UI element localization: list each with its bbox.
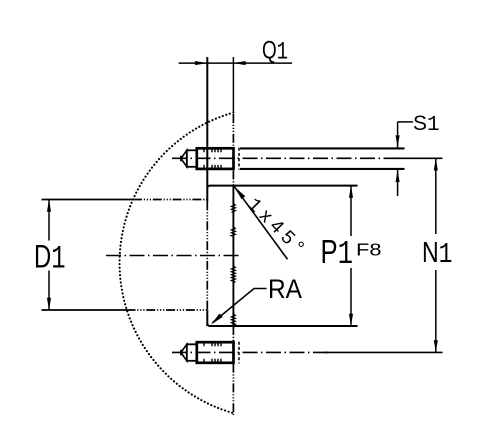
recess bore thread zigzags [232, 204, 236, 326]
flange left face line below recess corner (solid to bore) [206, 186, 208, 202]
svg-text:P1: P1 [321, 233, 354, 273]
bottom stud tip cone [181, 344, 187, 361]
bore hidden line bottom (D1 lower, hidden part) [127, 309, 208, 311]
top stud centre line [172, 157, 396, 159]
recess bore line (solid, right face 186-326) [232, 186, 234, 326]
chamfer leader arrowhead [234, 186, 245, 199]
flange right face hidden line upper [232, 114, 234, 147]
bottom stud neck rectangle [187, 344, 197, 361]
dimension N1 upper arrowhead [434, 158, 438, 170]
dimension N1 line lower segment [435, 270, 437, 352]
svg-text:F8: F8 [356, 240, 382, 260]
bore line bottom (D1 lower extension, solid) [42, 309, 127, 311]
dimension S1 leader horizontal [398, 121, 413, 123]
flange right face hidden line lower [232, 364, 234, 415]
dimension S1 upper arrowhead [396, 135, 400, 147]
svg-text:Q1: Q1 [262, 37, 288, 67]
dimension S1 upper line [397, 122, 399, 148]
top stud threaded body rectangle [197, 148, 234, 169]
svg-text:RA: RA [268, 274, 302, 304]
dimension D1 lower arrowhead [47, 298, 51, 310]
dimension N1 lower arrowhead [434, 340, 438, 352]
svg-text:N1: N1 [422, 237, 453, 271]
dimension P1 lower arrowhead [349, 314, 353, 326]
flange left face hidden line (across bore) [206, 202, 208, 311]
dimension D1 line upper segment [48, 200, 50, 241]
flange right face extension line (Q1) [232, 57, 234, 113]
leader RA polyline [213, 289, 267, 323]
top stud tip cone [181, 150, 187, 167]
top stud shaft bottom line [240, 168, 405, 170]
dimension Q1 left arrowhead [195, 61, 207, 65]
bottom stud thread runout hidden line [238, 342, 240, 364]
flange right face hidden line below recess [232, 326, 234, 341]
dimension P1 line lower segment [350, 268, 352, 326]
dimension P1 line upper segment [350, 186, 352, 236]
flange outline phantom arc (dotted semicircle) [120, 113, 234, 414]
dimension Q1 line [179, 62, 293, 64]
flange left face line (solid part) [206, 57, 208, 186]
main centre line (dash-dot) [106, 255, 242, 257]
bottom stud thread ticks [204, 342, 221, 362]
recess top edge (P1 upper extension) [207, 186, 357, 188]
top stud thread runout hidden line [238, 148, 240, 170]
svg-text:D1: D1 [34, 238, 66, 277]
flange right face hidden line above recess [232, 171, 234, 187]
bottom stud threaded body rectangle [197, 342, 234, 363]
dimension D1 line lower segment [48, 271, 50, 311]
top stud centre line end dash [394, 157, 443, 159]
bottom stud centre line end dash [324, 351, 443, 353]
dimension S1 lower line [397, 170, 399, 196]
svg-text:S1: S1 [413, 112, 440, 137]
flange left face line above bottom recess corner (solid from bore) [206, 310, 208, 326]
dimension D1 upper arrowhead [47, 200, 51, 212]
leader RA arrowhead [211, 314, 223, 325]
dimension N1 line upper segment [435, 158, 437, 234]
top stud thread ticks [204, 149, 221, 169]
dimension S1 lower arrowhead [396, 170, 400, 182]
bottom stud centre line [172, 351, 330, 353]
dimension Q1 right arrowhead [233, 61, 245, 65]
recess bottom edge (P1 lower extension) [207, 324, 357, 327]
bore line top (D1 upper extension, solid) [42, 199, 134, 201]
svg-text:1x45°: 1x45° [243, 194, 308, 259]
dimension P1 upper arrowhead [349, 186, 353, 198]
top stud neck rectangle [187, 150, 197, 167]
bore hidden line top (D1 upper, hidden part) [133, 199, 207, 201]
top stud shaft top line [240, 147, 405, 149]
chamfer leader line [234, 186, 288, 259]
